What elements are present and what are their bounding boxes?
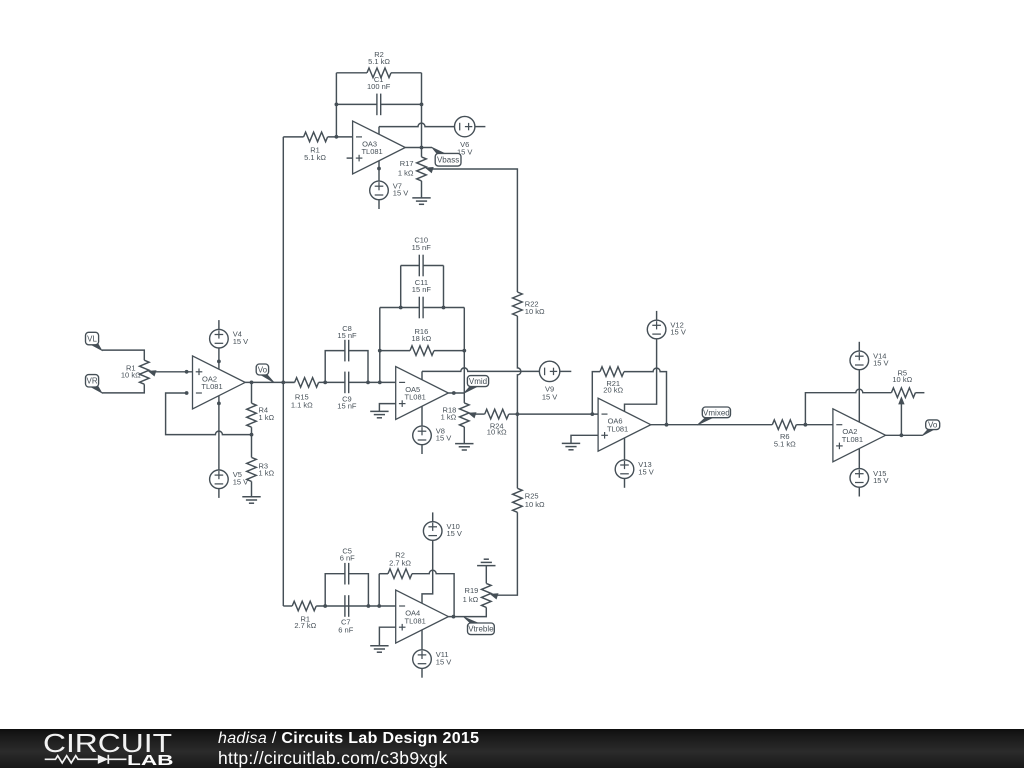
wire ground to R19 top [485, 566, 487, 584]
node R16 left [378, 349, 382, 353]
OA4 V- pin stub [421, 630, 423, 650]
resistor R2 2.7k (treble feedback) [388, 551, 412, 579]
wire OA4 + input to ground [379, 627, 395, 646]
svg-text:15 V: 15 V [393, 189, 408, 198]
voltage source V6 15V (horizontal) [455, 116, 475, 156]
svg-text:R19: R19 [465, 586, 479, 595]
node R21/output junction [665, 423, 669, 427]
voltage source V12 15V [647, 320, 686, 339]
V7 bottom stub [378, 200, 380, 209]
node OA2 output junction [250, 381, 254, 385]
wire R2 row left [336, 72, 367, 74]
node C7 right [367, 604, 371, 608]
voltage source V10 15V [423, 522, 462, 541]
capacitor C9 15nF [337, 372, 357, 411]
svg-text:15 V: 15 V [638, 467, 653, 476]
svg-text:10 kΩ: 10 kΩ [487, 428, 507, 437]
svg-text:15 V: 15 V [233, 337, 248, 346]
wire mix node to OA6 - input [517, 413, 598, 415]
OA3 V- pin stub [378, 161, 380, 181]
svg-text:1 kΩ: 1 kΩ [259, 413, 275, 422]
capacitor C7 6nF [338, 595, 353, 634]
wire OA6 + input to ground [571, 435, 598, 443]
node R4/R3 junction [250, 433, 254, 437]
wire C1 row right [381, 103, 422, 105]
ground at OA4 + input [370, 646, 388, 652]
wire Vo to R15 [283, 381, 294, 383]
svg-text:15 V: 15 V [436, 434, 451, 443]
wire R22 to mix node (hop over V9 row) [517, 316, 521, 414]
wire R15 to C9 [319, 381, 345, 383]
node OA2(out) - input junction [804, 423, 808, 427]
node OA5 - input [378, 381, 382, 385]
wire V14 to OA2 V+ pin [858, 370, 860, 422]
svg-text:Vtreble: Vtreble [468, 625, 494, 634]
wire R6 to OA2 - input [796, 424, 833, 426]
potentiometer R17 1k [398, 157, 426, 181]
wire C10 row [401, 265, 444, 267]
voltage source V13 15V [615, 460, 654, 479]
wire R24 to mix node [509, 413, 518, 415]
wire C11 row [380, 307, 465, 309]
op-amp OA2 TL081 (input stage) [193, 356, 246, 409]
capacitor C11 15nF [412, 278, 432, 319]
node C9 left [323, 381, 327, 385]
OA5 V- pin stub [421, 406, 423, 426]
wire OA4 output to R19 [448, 607, 486, 616]
node at OA2 V- pin [217, 402, 221, 406]
resistor R3 1k [247, 457, 275, 481]
V11 bottom stub [421, 668, 423, 677]
wire VR to R1 pot bottom [102, 384, 145, 393]
OA6 V- pin stub [624, 438, 626, 460]
wire C5 loop [325, 574, 368, 606]
voltage source V9 15V (horizontal) [539, 361, 559, 401]
ground below R3 [242, 497, 260, 503]
wire OA3 V+ to V6 [379, 123, 455, 127]
resistor R1 5.1k (bass input) [304, 132, 328, 162]
wire R17 bottom to ground [421, 181, 423, 198]
svg-text:VL: VL [87, 334, 97, 343]
V10 top stub [432, 512, 434, 521]
wire C9 to OA5 - input [349, 381, 396, 383]
resistor R22 10k [513, 292, 545, 316]
resistor R25 10k [513, 488, 545, 512]
wire R18 top [463, 393, 465, 403]
V5 bottom stub [218, 489, 220, 498]
resistor R24 10k [485, 409, 509, 436]
wire R17 top [421, 148, 423, 157]
V9 right stub [560, 370, 572, 372]
capacitor C10 15nF [412, 235, 432, 276]
ground at OA6 + input [562, 443, 580, 449]
wire R25 to R19 wiper [497, 512, 518, 595]
svg-text:1 kΩ: 1 kΩ [441, 412, 457, 421]
svg-text:TL081: TL081 [842, 435, 863, 444]
svg-text:1 kΩ: 1 kΩ [259, 468, 275, 477]
V6 right stub [475, 126, 486, 128]
net flag Vmixed [697, 407, 730, 425]
wire OA3 output [405, 147, 432, 149]
svg-text:15 V: 15 V [436, 657, 451, 666]
ground below R18 [455, 444, 473, 450]
resistor R6 5.1k [772, 420, 796, 449]
svg-text:10 kΩ: 10 kΩ [525, 500, 545, 509]
svg-text:2.7 kΩ: 2.7 kΩ [294, 621, 316, 630]
svg-text:TL081: TL081 [607, 424, 628, 433]
svg-text:LAB: LAB [127, 753, 174, 768]
R19 wiper arrow [490, 593, 499, 599]
wire R4 top [251, 382, 253, 403]
op-amp OA5 TL081 (mid) [396, 367, 449, 420]
wire feedback right vertical [421, 73, 423, 148]
potentiometer R5 10k [891, 369, 915, 398]
ground above R19 (inverted) [477, 559, 495, 565]
wire R1 wiper to OA2 + input [153, 371, 193, 373]
wire R5 wiper to output [900, 404, 902, 435]
node C7 left [323, 604, 327, 608]
svg-text:TL081: TL081 [201, 382, 222, 391]
V14 top stub [858, 342, 860, 351]
svg-text:6 nF: 6 nF [340, 554, 355, 563]
node OA6 - input junction [590, 412, 594, 416]
wire V12 to OA6 V+ pin [625, 339, 657, 412]
svg-text:R25: R25 [525, 492, 539, 501]
node Vo rail junction [281, 381, 285, 385]
svg-text:VR: VR [86, 377, 97, 386]
resistor R4 1k [247, 403, 275, 427]
svg-text:10 kΩ: 10 kΩ [121, 371, 141, 380]
svg-text:15 nF: 15 nF [337, 401, 357, 410]
svg-text:6 nF: 6 nF [338, 625, 353, 634]
wire OA5 V+ to V9 [422, 368, 539, 371]
wire Vo vertical rail [282, 137, 284, 606]
V4 top stub [218, 320, 220, 329]
node C1 left [335, 103, 339, 107]
wire OA5 + input to ground [379, 404, 395, 412]
OA3 + input open stub [347, 157, 353, 159]
wire R4 bottom [251, 427, 253, 434]
svg-text:Vo: Vo [928, 421, 938, 430]
OA5 V+ pin stub [421, 371, 423, 379]
node C11 right [442, 306, 446, 310]
net flag VL [86, 332, 102, 350]
potentiometer R18 1k [441, 403, 469, 427]
wire rail to R1 (bottom) [283, 605, 292, 607]
R1 pot wiper arrow [148, 370, 157, 376]
svg-text:15 nF: 15 nF [412, 243, 432, 252]
svg-text:5.1 kΩ: 5.1 kΩ [774, 440, 796, 449]
R18 wiper arrow [468, 412, 477, 418]
voltage source V11 15V [413, 650, 452, 669]
voltage source V5 15V [210, 470, 249, 489]
wire R2 row left [379, 573, 388, 575]
resistor R2 5.1k (bass feedback) [367, 50, 391, 78]
svg-text:15 nF: 15 nF [337, 331, 357, 340]
svg-text:10 kΩ: 10 kΩ [892, 375, 912, 384]
voltage source V7 15V [370, 181, 409, 200]
OA3 V+ pin stub [378, 127, 380, 135]
svg-text:15 V: 15 V [873, 359, 888, 368]
node OA3 - input [335, 135, 339, 139]
wire V4 to OA2 V+ pin [218, 348, 220, 369]
potentiometer R1 10k [121, 360, 149, 384]
svg-text:15 V: 15 V [233, 478, 248, 487]
svg-text:2.7 kΩ: 2.7 kΩ [389, 559, 411, 568]
wire R2 feedback left vertical [378, 574, 380, 606]
node OA3 V- pin [377, 167, 381, 171]
voltage source V8 15V [413, 426, 452, 445]
V13 bottom stub [624, 479, 626, 488]
node OA3 output junction [420, 146, 424, 150]
wire R18 wiper to R24 [473, 413, 484, 415]
wire OA5 output [448, 392, 464, 394]
node at OA2 - pin [185, 391, 189, 395]
wire OA2 output [245, 381, 294, 383]
net flag Vtreble [464, 617, 495, 635]
wire R18 bottom to ground [463, 427, 465, 444]
wire rail to R1 (top) [283, 136, 303, 138]
resistor R21 20k [600, 367, 624, 395]
svg-text:18 kΩ: 18 kΩ [412, 334, 432, 343]
net flag VR [86, 375, 102, 393]
V15 bottom stub [858, 487, 860, 496]
svg-text:15 V: 15 V [542, 392, 557, 401]
wire OA6 output to R6 [651, 424, 773, 426]
svg-text:Vmixed: Vmixed [703, 408, 730, 417]
OA2 V- pin stub [858, 449, 860, 469]
op-amp OA3 TL081 (bass) [353, 121, 406, 174]
op-amp OA4 TL081 (treble) [396, 590, 449, 643]
wire C1 row left [336, 103, 377, 105]
wire C11/R16 left vertical [379, 308, 381, 383]
svg-text:15 V: 15 V [447, 529, 462, 538]
node at OA2 V+ pin [217, 360, 221, 364]
capacitor C8 15nF [337, 324, 357, 362]
node mix junction [516, 412, 520, 416]
wire R3 top [251, 435, 253, 458]
svg-text:1.1 kΩ: 1.1 kΩ [291, 400, 313, 409]
resistor R16 18k [410, 327, 434, 356]
node C11 left [399, 306, 403, 310]
net flag Vmid [464, 376, 489, 394]
node C1 right [420, 103, 424, 107]
R5 right stub [915, 392, 924, 394]
op-amp OA6 TL081 (mixer) [598, 398, 651, 451]
node OA5 output [452, 391, 456, 395]
wire VL to R1 pot top [102, 350, 145, 360]
net flag Vo (input stage) [256, 364, 274, 383]
V8 bottom stub [421, 445, 423, 454]
svg-text:TL081: TL081 [405, 393, 426, 402]
svg-text:15 V: 15 V [873, 476, 888, 485]
resistor R1 2.7k (treble input) [292, 601, 316, 630]
wire R2 row right (hop over V10) [412, 570, 454, 616]
node R16 right [462, 349, 466, 353]
V12 top stub [656, 311, 658, 320]
wire R21 row right (hop over V12) [624, 368, 667, 425]
wire R3 to ground [251, 481, 253, 496]
ground below R17 [412, 198, 430, 204]
wire R16 right vertical [463, 308, 465, 394]
wire R16 row right [434, 350, 464, 352]
svg-text:15 nF: 15 nF [412, 285, 432, 294]
wire OA2 output [886, 434, 923, 436]
wire C10 right vertical [443, 266, 445, 308]
wire R2 row right [391, 72, 422, 74]
voltage source V4 15V [210, 329, 249, 348]
node R2/output junction [452, 615, 456, 619]
wire R1 to OA3 - input [328, 136, 353, 138]
svg-text:Vmid: Vmid [469, 377, 487, 386]
svg-text:1 kΩ: 1 kΩ [463, 595, 479, 604]
wire feedback left vertical [335, 73, 337, 137]
wire R21 feedback loop [592, 372, 600, 415]
node OA4 - input [377, 604, 381, 608]
svg-text:100 nF: 100 nF [367, 82, 391, 91]
wire R25 top [516, 414, 518, 488]
wire C8 loop [325, 351, 368, 383]
logo resistor-diode symbol [45, 755, 127, 764]
svg-text:Vo: Vo [258, 365, 268, 374]
svg-text:5.1 kΩ: 5.1 kΩ [304, 153, 326, 162]
resistor R15 1.1k [291, 378, 319, 410]
wire OA2 minus feedback loop [166, 393, 252, 435]
wire R5 feedback loop (hop over V14) [805, 389, 891, 424]
wire V10 to OA4 V+ pin [422, 540, 433, 603]
wire R17 wiper to mix rail [431, 169, 518, 292]
node R5 wiper junction [900, 433, 904, 437]
ground at OA5 + input [370, 411, 388, 417]
svg-text:20 kΩ: 20 kΩ [603, 385, 623, 394]
R17 wiper arrow [425, 167, 434, 173]
potentiometer R19 1k [463, 583, 491, 607]
R5 wiper arrow [898, 396, 904, 404]
capacitor C5 6nF [340, 546, 355, 584]
svg-text:1 kΩ: 1 kΩ [398, 169, 414, 178]
node C9 right [366, 381, 370, 385]
op-amp OA2 TL081 (output) [833, 409, 886, 462]
node at OA2 + pin [185, 370, 189, 374]
svg-text:10 kΩ: 10 kΩ [525, 307, 545, 316]
voltage source V15 15V [850, 469, 889, 488]
wire OA2 V- pin to V5 [218, 396, 220, 470]
svg-text:TL081: TL081 [405, 616, 426, 625]
svg-text:R17: R17 [400, 159, 414, 168]
wire R1 to OA4 - input [316, 605, 396, 607]
svg-text:TL081: TL081 [361, 147, 382, 156]
svg-text:5.1 kΩ: 5.1 kΩ [368, 57, 390, 66]
capacitor C1 100nF [367, 75, 391, 115]
net flag Vbass [432, 147, 461, 166]
voltage source V14 15V [850, 351, 889, 370]
net flag Vo (output) [922, 420, 940, 436]
wire C10 left vertical [400, 266, 402, 308]
wire R16 row left [380, 350, 410, 352]
svg-text:Vbass: Vbass [437, 156, 459, 165]
svg-text:15 V: 15 V [670, 328, 685, 337]
